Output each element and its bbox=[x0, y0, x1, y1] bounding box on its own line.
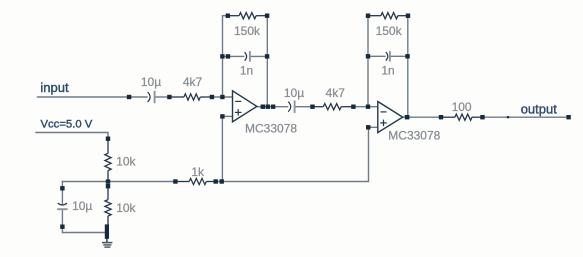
resistor R8 1k bbox=[175, 181, 189, 183]
wire R3-U2 bbox=[353, 106, 377, 108]
node C5 pin 2 bbox=[60, 225, 64, 229]
wire input bbox=[37, 96, 148, 98]
capacitor C2 1n bbox=[245, 52, 247, 61]
svg-text:100: 100 bbox=[452, 100, 472, 114]
wire C3-R3 bbox=[295, 106, 313, 108]
svg-text:MC33078: MC33078 bbox=[245, 122, 297, 136]
node R8 pin 2 bbox=[214, 179, 218, 183]
capacitor C1 10µ bbox=[148, 92, 151, 102]
wire U1 fb right vertical bbox=[266, 16, 268, 107]
svg-text:4k7: 4k7 bbox=[183, 75, 203, 89]
resistor R4 150k bbox=[368, 15, 381, 17]
wire bias bus bbox=[216, 181, 369, 183]
node C3 pin 2 / R3 pin 1 bbox=[310, 105, 314, 109]
node C4 pin 1 bbox=[366, 54, 370, 58]
svg-text:10µ: 10µ bbox=[141, 75, 161, 89]
node C4 pin 2 bbox=[405, 54, 409, 58]
wire U1 plus vertical bbox=[221, 116, 223, 181]
node R1 pin 2 bbox=[210, 95, 214, 99]
node C3 pin 1 bbox=[271, 105, 275, 109]
node R2 pin 2 bbox=[265, 14, 269, 18]
resistor R3 4k7 bbox=[313, 106, 324, 108]
node R7 pin 1 bbox=[106, 184, 110, 188]
wire U2 fb right vertical bbox=[407, 16, 409, 118]
wire U2 output bbox=[403, 116, 441, 118]
svg-text:10µ: 10µ bbox=[284, 86, 304, 100]
resistor R1 4k7 bbox=[169, 96, 184, 98]
svg-text:1k: 1k bbox=[191, 165, 205, 179]
resistor R7 10k bbox=[107, 186, 109, 199]
wire U1 output bbox=[257, 106, 268, 108]
svg-text:150k: 150k bbox=[376, 24, 403, 38]
wire U1 fb cap right bbox=[250, 55, 267, 57]
node output terminal bbox=[566, 115, 570, 119]
node R3 pin 2 bbox=[351, 105, 355, 109]
node R4 pin 2 bbox=[406, 14, 410, 18]
svg-text:10k: 10k bbox=[116, 155, 136, 169]
svg-text:1n: 1n bbox=[381, 64, 394, 78]
node bias bus junction bbox=[220, 179, 224, 183]
resistor R2 150k bbox=[228, 15, 239, 17]
node U2 non-inverting input bbox=[366, 125, 370, 129]
wire R1-U1 bbox=[212, 96, 233, 98]
node U1 non-inverting input bbox=[220, 114, 224, 118]
capacitor C4 1n bbox=[386, 52, 388, 61]
wire U2 plus vertical bbox=[368, 127, 370, 182]
node C2 pin 1 bbox=[226, 54, 230, 58]
wire R5-output bbox=[483, 116, 569, 118]
resistor R6 10k bbox=[107, 139, 109, 154]
svg-text:input: input bbox=[40, 80, 69, 95]
wire node-R8 bbox=[108, 181, 175, 183]
svg-text:4k7: 4k7 bbox=[326, 86, 346, 100]
node R2 pin 1 bbox=[226, 14, 230, 18]
wire C5-ground bbox=[61, 227, 63, 233]
node bias divider junction bbox=[106, 179, 110, 183]
node U1 output pin bbox=[261, 105, 265, 109]
op-amp U2 bbox=[378, 102, 403, 133]
node C2 pin 2 bbox=[265, 54, 269, 58]
node U2 output junction bbox=[405, 115, 410, 119]
ground bbox=[106, 239, 108, 242]
node C1 pin 1 bbox=[127, 95, 131, 99]
wire Vcc rail bbox=[35, 132, 108, 134]
wire U2 fb left vertical bbox=[367, 16, 369, 107]
op-amp U1 bbox=[233, 91, 257, 122]
node R6 pin 1 bbox=[106, 137, 110, 141]
wire C1-R1 bbox=[155, 96, 170, 98]
node C2 junction bbox=[220, 54, 224, 58]
svg-text:Vcc=5.0 V: Vcc=5.0 V bbox=[41, 119, 93, 131]
wire U1 fb cap left bbox=[223, 55, 245, 57]
wire node-C5 bbox=[62, 181, 108, 183]
wire C5 leads bbox=[61, 188, 63, 204]
node R5 pin 2 bbox=[480, 115, 484, 119]
node R8 pin 1 bbox=[173, 179, 177, 183]
svg-text:10k: 10k bbox=[116, 201, 136, 215]
node U1 output junction bbox=[266, 105, 270, 109]
node U1 inverting input bbox=[220, 95, 224, 99]
node C1 pin 2 / R1 pin 1 bbox=[167, 95, 171, 99]
wire U2 fb cap right bbox=[390, 55, 408, 57]
wire U1 plus lead bbox=[222, 115, 232, 117]
node C5 pin 1 bbox=[60, 186, 64, 190]
wire U1-C3 bbox=[268, 106, 289, 108]
node R4 pin 1 bbox=[366, 14, 370, 18]
wire U2 fb cap left bbox=[368, 55, 386, 57]
capacitor C3 10µ bbox=[288, 102, 291, 112]
capacitor C5 10µ bbox=[58, 203, 67, 205]
node U2 inverting input bbox=[366, 105, 370, 109]
svg-text:output: output bbox=[521, 102, 558, 117]
node R5 pin 1 bbox=[439, 115, 443, 119]
svg-text:MC33078: MC33078 bbox=[388, 129, 440, 143]
wire U2 plus lead bbox=[368, 126, 378, 128]
svg-text:1n: 1n bbox=[240, 64, 253, 78]
wire U1 fb top stub bbox=[222, 15, 224, 16]
node ground junction bbox=[105, 224, 109, 239]
wire U1 fb left vertical bbox=[222, 16, 224, 97]
svg-text:150k: 150k bbox=[234, 24, 261, 38]
svg-text:10µ: 10µ bbox=[72, 199, 92, 213]
resistor R5 100 bbox=[441, 116, 455, 118]
node wire joint bbox=[507, 116, 509, 118]
